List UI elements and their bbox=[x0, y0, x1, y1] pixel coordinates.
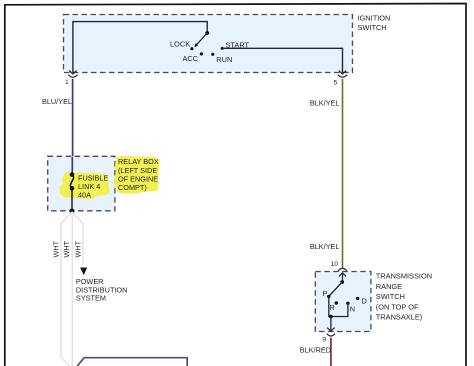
ACC contact dot bbox=[200, 52, 203, 55]
wire: P-N bridge bracket bbox=[329, 297, 348, 317]
LOCK contact dot bbox=[190, 47, 193, 50]
WHT wire 2 bbox=[71, 212, 73, 366]
pin 1 connector arc bbox=[68, 75, 77, 78]
off-page reference banner bbox=[77, 358, 187, 366]
arrow to power distribution system bbox=[80, 268, 87, 276]
svg-text:(ON TOP OF: (ON TOP OF bbox=[376, 303, 419, 312]
svg-text:9: 9 bbox=[322, 337, 326, 344]
svg-text:BLK/YEL: BLK/YEL bbox=[310, 242, 340, 251]
svg-text:COMPT): COMPT) bbox=[118, 183, 147, 192]
wire BLK/RED bbox=[330, 338, 332, 366]
svg-text:LOCK: LOCK bbox=[170, 40, 190, 49]
fusible link 4 : bottom terminal bbox=[70, 186, 75, 191]
svg-text:ACC: ACC bbox=[183, 54, 199, 63]
wire inside relay box to fuse bbox=[71, 157, 73, 174]
svg-text:R: R bbox=[330, 303, 335, 312]
node: switch pivot bbox=[205, 31, 209, 35]
D contact dot bbox=[356, 297, 359, 300]
yellow highlight over RELAY BOX note bbox=[114, 156, 160, 194]
pin 5 arrow bbox=[339, 71, 346, 74]
fusible link 4 : element curve bbox=[70, 175, 73, 189]
svg-text:N: N bbox=[350, 305, 355, 314]
WHT wire 1 bbox=[61, 212, 72, 366]
svg-text:IGNITION: IGNITION bbox=[358, 13, 391, 22]
relay box (fusible link enclosure) bbox=[48, 156, 115, 211]
N contact dot bbox=[346, 302, 349, 305]
pin 10 connector arc bbox=[338, 268, 347, 271]
svg-text:TRANSAXLE): TRANSAXLE) bbox=[376, 313, 422, 322]
range switch lever to P bbox=[329, 282, 342, 296]
wire: START contact to pin 5 bbox=[224, 48, 343, 73]
WHT wire 3 bbox=[72, 212, 83, 266]
node: range switch pivot bbox=[340, 280, 344, 284]
pin 5 connector arc bbox=[338, 75, 347, 78]
svg-text:BLK/YEL: BLK/YEL bbox=[310, 98, 340, 107]
svg-text:D: D bbox=[362, 297, 367, 306]
junction node at relay box bottom bbox=[70, 209, 75, 214]
R contact dot bbox=[335, 301, 338, 304]
junction node on bracket bbox=[329, 315, 333, 319]
svg-text:SWITCH: SWITCH bbox=[358, 23, 387, 32]
svg-text:BLK/RED: BLK/RED bbox=[300, 346, 331, 355]
svg-text:TRANSMISSION: TRANSMISSION bbox=[376, 272, 432, 281]
pin 10 arrow (inside box, pointing up) bbox=[339, 273, 346, 277]
switch lever (to LOCK) bbox=[196, 33, 207, 45]
svg-text:10: 10 bbox=[330, 261, 338, 268]
svg-text:BLU/YEL: BLU/YEL bbox=[42, 97, 72, 106]
wire: ignition feed from pin 1 up and across bbox=[73, 22, 207, 73]
svg-text:P: P bbox=[323, 289, 328, 298]
svg-text:5: 5 bbox=[334, 79, 338, 86]
P contact dot bbox=[327, 295, 330, 298]
svg-text:RANGE: RANGE bbox=[376, 282, 402, 291]
fusible link 4 : top terminal bbox=[70, 172, 75, 177]
svg-text:SWITCH: SWITCH bbox=[376, 292, 405, 301]
pin 1 arrow bbox=[69, 71, 76, 74]
START contact dot bbox=[221, 47, 224, 50]
wire: bracket to pin 9 bbox=[330, 317, 332, 331]
yellow highlight over FUSIBLE LINK 4 40A bbox=[60, 172, 110, 199]
svg-text:1: 1 bbox=[65, 79, 69, 86]
RUN contact dot bbox=[211, 53, 214, 56]
pin 9 connector arc bbox=[327, 334, 335, 336]
svg-text:WHT: WHT bbox=[74, 240, 83, 257]
transmission range switch box bbox=[315, 272, 371, 332]
svg-text:SYSTEM: SYSTEM bbox=[76, 294, 106, 303]
svg-text:WHT: WHT bbox=[62, 240, 71, 257]
wire BLK/YEL (pin 5 to range switch) bbox=[342, 79, 344, 268]
wire fuse to box edge bbox=[71, 188, 73, 211]
svg-text:RUN: RUN bbox=[216, 55, 232, 64]
svg-text:WHT: WHT bbox=[52, 240, 61, 257]
wire BLU/YEL (pin 1 to fusible link) bbox=[72, 79, 74, 175]
ignition switch box bbox=[64, 15, 353, 73]
svg-text:40A: 40A bbox=[78, 190, 91, 199]
pin 9 arrow bbox=[327, 328, 334, 331]
